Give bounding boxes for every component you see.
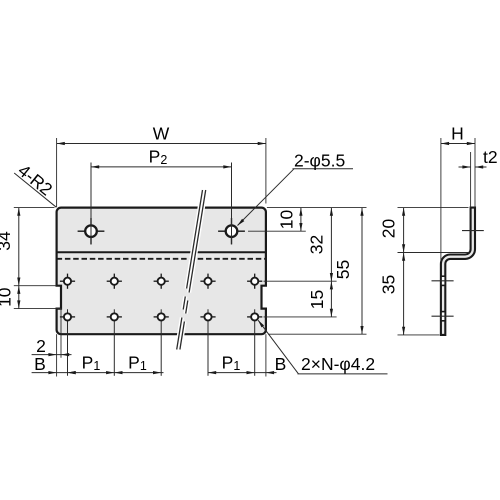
svg-text:15: 15 [307,290,327,309]
svg-text:2-φ5.5: 2-φ5.5 [294,151,345,171]
svg-text:10: 10 [0,287,15,307]
svg-text:20: 20 [379,219,399,239]
svg-text:55: 55 [333,260,353,279]
svg-text:W: W [153,124,170,144]
svg-text:2×N-φ4.2: 2×N-φ4.2 [301,354,375,374]
svg-text:34: 34 [0,231,14,251]
svg-text:B: B [34,354,46,374]
svg-text:B: B [275,354,287,374]
svg-text:10: 10 [277,210,297,230]
svg-text:t2: t2 [483,147,498,167]
svg-text:32: 32 [307,235,327,254]
svg-text:35: 35 [379,275,399,294]
svg-text:H: H [451,124,464,144]
